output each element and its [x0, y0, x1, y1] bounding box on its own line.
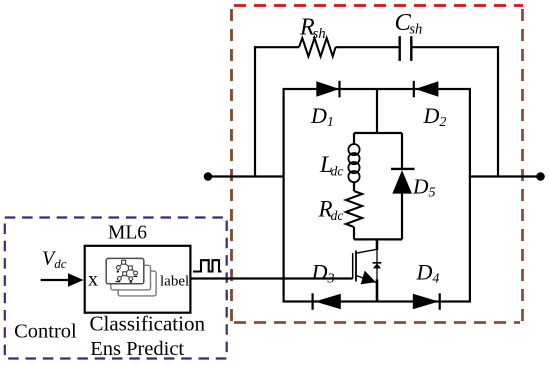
transistor Q1 (IGBT)	[353, 249, 377, 284]
wire: below R_dc	[353, 227, 355, 239]
wire: bridge top midpoint drop	[376, 89, 378, 133]
svg-text:Csh: Csh	[395, 9, 423, 38]
wire: between L_dc and R_dc	[353, 182, 355, 191]
resistor R_dc	[346, 191, 362, 227]
diode D4	[413, 293, 440, 310]
diode D1	[316, 81, 339, 98]
diode D5	[391, 169, 415, 194]
wire: parallel branch top	[354, 132, 402, 134]
wire: right snubber vertical	[497, 46, 499, 176]
wire: C_sh to right vertical	[411, 46, 499, 48]
node: left terminal dot	[204, 172, 213, 181]
diode: IGBT antiparallel body diode	[373, 250, 382, 280]
resistor R_sh	[299, 38, 336, 57]
wire: emitter stub	[376, 280, 379, 302]
wire: left branch upper stub	[353, 133, 355, 145]
svg-text:Ens Predict: Ens Predict	[90, 338, 184, 360]
svg-text:x: x	[88, 268, 98, 290]
classification ensemble icon (stacked cards with decision tree)	[106, 258, 156, 296]
wire: bridge loop rectangle	[284, 89, 470, 302]
gate signal waveform	[193, 260, 222, 271]
svg-text:Control: Control	[14, 320, 77, 342]
svg-text:Ldc: Ldc	[319, 152, 343, 178]
svg-text:label: label	[160, 274, 189, 290]
module boundary (red dashed box)	[232, 6, 524, 323]
svg-text:Vdc: Vdc	[42, 248, 67, 272]
input arrow	[41, 273, 84, 286]
svg-text:ML6: ML6	[108, 222, 147, 243]
wire: collector stub	[376, 239, 379, 250]
svg-text:D2: D2	[423, 103, 447, 130]
wire: left snubber vertical	[254, 46, 256, 176]
ML predict block	[85, 246, 191, 313]
wire: right branch below D5	[401, 194, 403, 240]
svg-text:D1: D1	[310, 103, 334, 130]
wire: bridge to right terminal	[470, 175, 541, 177]
wire: parallel branch bottom	[354, 238, 402, 240]
wire: right branch above D5	[401, 133, 403, 169]
svg-text:Rsh: Rsh	[299, 15, 326, 43]
wire: R_sh to C_sh	[336, 46, 400, 48]
wire: top-left to R_sh	[254, 46, 299, 48]
node: right terminal dot	[536, 172, 545, 181]
capacitor C_sh	[400, 36, 412, 61]
diode D3	[313, 293, 341, 310]
svg-text:Rdc: Rdc	[318, 197, 344, 223]
svg-text:D3: D3	[311, 259, 335, 286]
inductor L_dc	[348, 144, 359, 182]
svg-text:D5: D5	[412, 175, 436, 201]
control block boundary (blue dashed box)	[5, 218, 227, 359]
diode D2	[414, 81, 439, 98]
wire: gate drive line	[190, 277, 353, 279]
svg-text:Classification: Classification	[90, 312, 206, 336]
wire: left terminal to bridge	[208, 175, 284, 177]
svg-text:D4: D4	[416, 259, 440, 286]
